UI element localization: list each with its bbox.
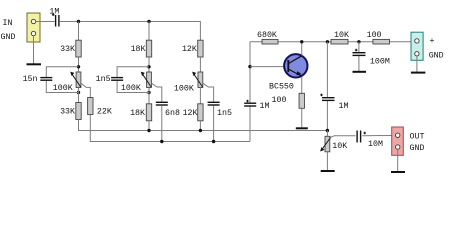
ground (emitter)	[296, 127, 308, 129]
node A1	[77, 65, 80, 68]
connector J3 OUT/GND (pink)	[392, 127, 404, 155]
wire: 1M output cap branch	[326, 42, 328, 131]
wire: 33K lower to upper rail	[79, 120, 328, 131]
wire: GND pin down	[33, 36, 35, 64]
node: base	[248, 65, 251, 68]
svg-text:1M: 1M	[49, 7, 59, 16]
ground (supply)	[411, 72, 426, 74]
svg-text:GND: GND	[410, 144, 425, 153]
ground (output)	[391, 171, 405, 173]
wire: pot wiper to 10M	[330, 136, 356, 138]
wire: supply gnd pin down	[416, 56, 418, 72]
capacitor 10M (output)	[357, 131, 366, 143]
resistor 33K (series, stage 1)	[76, 40, 81, 57]
potentiometer 100K (stage 3)	[192, 72, 203, 88]
resistor 18K (series, stage 2)	[146, 40, 151, 57]
wire: pot2 wiper to 6n8	[151, 83, 161, 101]
wire: pot1 wiper to 22K	[81, 83, 90, 97]
wire: 22K down to lower rail	[90, 115, 250, 142]
resistor 680K	[262, 39, 278, 44]
svg-text:GND: GND	[429, 51, 444, 60]
svg-text:GND: GND	[1, 33, 16, 42]
node: 12K / upper rail	[199, 129, 202, 132]
ground (input)	[27, 63, 42, 65]
wire: pot2 to 18K lower	[148, 88, 150, 104]
wire: out gnd pin down	[397, 149, 399, 171]
svg-text:100M: 100M	[370, 57, 390, 66]
wire: 12K to pot3	[199, 57, 201, 72]
svg-text:1M: 1M	[339, 102, 349, 111]
wire: 12K lower to upper rail	[199, 121, 201, 131]
wire: 1n5 to lower rail	[213, 106, 215, 142]
svg-text:18K: 18K	[130, 109, 145, 118]
wire: emitter resistor to ground	[301, 108, 303, 127]
node: 1n5 / lower rail	[212, 140, 215, 143]
wire: collector rail	[250, 41, 415, 43]
svg-text:100: 100	[367, 31, 382, 40]
svg-text:1M: 1M	[260, 102, 270, 111]
node: 6n8 / lower rail	[160, 140, 163, 143]
svg-text:15n: 15n	[23, 75, 38, 84]
svg-text:1n5: 1n5	[217, 109, 232, 118]
wire: cap loop stage 2	[117, 67, 149, 93]
wire: 6n8 to lower rail	[161, 106, 163, 142]
wire: pot1 to 33K lower	[78, 88, 80, 103]
node: collector	[300, 40, 303, 43]
svg-text:12K: 12K	[183, 109, 198, 118]
svg-text:+: +	[430, 37, 435, 46]
svg-text:IN: IN	[3, 19, 13, 28]
capacitor 15n (stage 1)	[40, 78, 52, 81]
potentiometer 10K (volume)	[320, 131, 331, 152]
node: pot top	[326, 129, 329, 132]
svg-text:BC550: BC550	[269, 82, 294, 91]
wire: top signal rail	[60, 22, 201, 41]
potentiometer 100K (stage 1)	[70, 72, 81, 88]
resistor 18K (shunt, stage 2)	[146, 104, 151, 121]
node B1	[77, 91, 80, 94]
wire: rail to R 33K top	[78, 22, 80, 41]
svg-text:10M: 10M	[368, 140, 383, 149]
svg-text:33K: 33K	[60, 108, 75, 117]
svg-text:680K: 680K	[257, 31, 277, 40]
wire: rail to 18K	[148, 22, 150, 41]
wire: 18K lower to upper rail	[148, 121, 150, 131]
capacitor 1n5 (stage 2)	[111, 78, 123, 81]
ground (pot)	[321, 170, 335, 172]
capacitor 6n8 (wiper, stage 2)	[156, 102, 168, 105]
node B2	[147, 91, 150, 94]
resistor 100 (supply)	[373, 39, 390, 44]
svg-text:OUT: OUT	[410, 133, 425, 142]
wire: input pin to C 1M	[36, 21, 55, 23]
svg-text:18K: 18K	[131, 45, 146, 54]
capacitor 1M (feedback, at base)	[244, 100, 256, 106]
capacitor 1M (input coupling)	[52, 13, 59, 26]
connector J1 IN/GND (yellow)	[27, 13, 40, 42]
svg-text:100: 100	[272, 96, 287, 105]
wire: pot to ground	[326, 152, 328, 170]
ground (100M)	[353, 71, 367, 73]
resistor 10K (output series)	[331, 39, 348, 44]
capacitor 100M	[353, 49, 366, 56]
wire: pot3 wiper to 1n5	[203, 83, 214, 101]
capacitor 1M (output branch)	[320, 94, 334, 101]
capacitor 1n5 (wiper, stage 3)	[208, 102, 220, 105]
resistor 22K (wiper, stage 1)	[88, 98, 93, 115]
svg-text:100K: 100K	[53, 84, 73, 93]
potentiometer 100K (stage 2)	[141, 72, 152, 88]
wire: base node riser / 1M drop	[249, 42, 251, 142]
wire: emitter down	[301, 77, 303, 94]
wire: 33K to pot1	[78, 57, 80, 72]
svg-text:12K: 12K	[182, 45, 197, 54]
wire: 18K to pot2	[148, 57, 150, 72]
wire: collector up	[301, 42, 303, 56]
resistor 12K (shunt, stage 3)	[198, 104, 203, 121]
resistor 12K (series, stage 3)	[198, 40, 203, 57]
node: top rail / 33K	[77, 20, 80, 23]
wire: 10M to OUT pin	[362, 134, 395, 136]
svg-text:6n8: 6n8	[165, 109, 180, 118]
node: output branch	[326, 40, 329, 43]
svg-text:33K: 33K	[60, 45, 75, 54]
svg-text:10K: 10K	[332, 142, 347, 151]
node: 18K / upper rail	[147, 129, 150, 132]
connector J2 supply (cyan)	[411, 32, 423, 60]
node: top rail / 18K	[147, 20, 150, 23]
wire: pot3 to 12K lower	[199, 88, 201, 104]
wire: base lead	[250, 66, 288, 68]
wire: cap loop stage 1	[46, 67, 78, 93]
wire: down to 100M	[358, 42, 360, 71]
transistor BC550	[284, 54, 307, 77]
resistor 100 (emitter)	[299, 93, 304, 108]
node A2	[147, 65, 150, 68]
svg-text:10K: 10K	[334, 31, 349, 40]
svg-text:100K: 100K	[174, 84, 194, 93]
resistor 33K (shunt, stage 1)	[76, 103, 81, 120]
node: supply cap	[357, 40, 360, 43]
svg-text:22K: 22K	[97, 108, 112, 117]
svg-text:100K: 100K	[121, 84, 141, 93]
svg-text:1n5: 1n5	[96, 75, 111, 84]
